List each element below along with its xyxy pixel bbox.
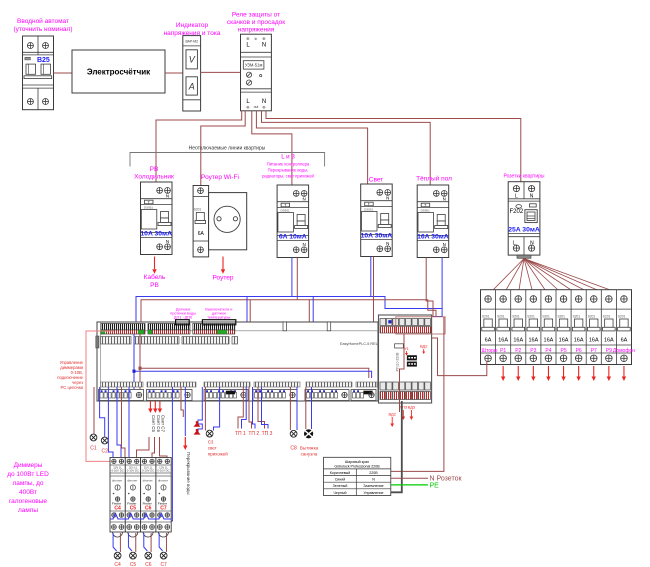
svg-text:10A 30мА: 10A 30мА (361, 233, 393, 240)
svg-text:T: T (284, 203, 286, 207)
wire jumper2 blue into PLC (312, 297, 314, 343)
svg-text:P9: P9 (606, 348, 612, 354)
svg-text:Роутер: Роутер (213, 275, 234, 282)
svg-text:Электросчётчик: Электросчётчик (87, 68, 151, 77)
svg-text:N Розеток: N Розеток (430, 476, 463, 483)
svg-text:C5: C5 (130, 506, 137, 512)
arrows PSU bottom outputs (390, 410, 413, 427)
svg-text:Черный: Черный (334, 491, 347, 495)
router breaker 6A with socket (193, 186, 247, 257)
svg-text:S201: S201 (558, 315, 566, 319)
PLC internal wire maroon (140, 334, 369, 378)
svg-text:Gidrolock Professional 220В: Gidrolock Professional 220В (334, 464, 380, 468)
svg-text:0-10V DC: 0-10V DC (157, 469, 169, 473)
wire floor-heating maroon to PSU (426, 258, 433, 318)
svg-text:S201: S201 (618, 315, 626, 319)
wire PE green (391, 483, 439, 490)
svg-text:6A: 6A (621, 338, 628, 344)
RCBO light 10A 30mA (361, 184, 393, 257)
wire light module down blue (370, 257, 372, 297)
wire L3 to PLC blue (291, 258, 293, 297)
svg-text:6A: 6A (485, 338, 492, 344)
svg-text:УЗМ-51м: УЗМ-51м (245, 63, 263, 68)
svg-text:Реле защиты от: Реле защиты от (232, 12, 280, 19)
labels PSU bottom outputs (388, 405, 415, 417)
svg-text:Неотключаемые линии квартиры: Неотключаемые линии квартиры (189, 146, 266, 152)
svg-text:dimmer: dimmer (112, 479, 122, 483)
wires dimmers to lamps (113, 533, 166, 552)
svg-text:⊕: ⊕ (246, 105, 250, 110)
arrow fridge cable (154, 257, 156, 270)
wire 220V brown to valve table (391, 317, 444, 471)
svg-text:ТП3: ТП3 (400, 405, 408, 410)
PLC internal wire blue (134, 334, 372, 378)
electricity meter (72, 50, 165, 93)
svg-text:N: N (386, 241, 389, 246)
wire shutters breaker to PSU (432, 338, 487, 376)
PLC top terminal strip group 1 (101, 324, 145, 335)
svg-text:T: T (148, 200, 150, 204)
svg-text:ВД2: ВД2 (388, 412, 396, 417)
wire floor-heating blue to bus (441, 258, 443, 309)
wire internal maroon drop (139, 368, 141, 400)
svg-text:ВД2: ВД2 (420, 344, 428, 349)
surge protection relay UZM-51m (241, 34, 272, 111)
wire to lamp C1 (93, 387, 95, 434)
svg-text:C6: C6 (145, 562, 152, 567)
svg-text:Перекрывание воды: Перекрывание воды (186, 452, 191, 495)
svg-text:Свет C5: Свет C5 (151, 415, 156, 433)
svg-text:B25: B25 (37, 57, 50, 64)
svg-text:напряжения: напряжения (238, 27, 275, 34)
dimmer module C7 (156, 458, 171, 538)
svg-text:P5: P5 (560, 348, 566, 354)
svg-text:лампы, до: лампы, до (12, 480, 43, 487)
arrow water shutoff (184, 437, 186, 446)
label L3 line (262, 154, 314, 179)
svg-text:220В: 220В (369, 471, 378, 475)
PLC top terminal strip group 2 (leak sensors) (148, 324, 190, 335)
svg-text:C8: C8 (290, 446, 297, 452)
wire relay to light module (256, 111, 367, 184)
wire N sockets (391, 476, 463, 483)
svg-text:N: N (372, 478, 375, 482)
svg-text:температуры: температуры (207, 316, 230, 320)
wire to lamp C3 blue (214, 387, 220, 431)
PLC second terminal row (101, 337, 238, 345)
label switches and temp sensors (205, 308, 232, 320)
control wire black thick (391, 401, 402, 492)
blue daisy chain dimmer bottoms (110, 514, 171, 520)
PLC top terminal strip group 3 (switches) (193, 324, 235, 335)
label input breaker (13, 17, 72, 33)
label fridge module (134, 166, 174, 181)
svg-text:0-10V DC: 0-10V DC (142, 469, 154, 473)
bracket non-switchable lines (130, 146, 325, 167)
svg-text:T: T (424, 203, 426, 207)
svg-text:ТП 2: ТП 2 (248, 431, 259, 437)
svg-text:Кабель: Кабель (144, 273, 166, 281)
RCBO floor heating 16A 30mA (417, 185, 449, 258)
svg-text:S201: S201 (512, 315, 520, 319)
svg-text:радиаторы, свет прихожей: радиаторы, свет прихожей (262, 174, 314, 179)
svg-text:Управление: Управление (364, 491, 384, 495)
svg-text:C2: C2 (101, 449, 108, 455)
svg-text:N: N (302, 242, 305, 247)
wire maroon inside PSU (400, 334, 405, 412)
svg-text:РС цепочки: РС цепочки (61, 385, 84, 390)
svg-text:Свет C7: Свет C7 (161, 415, 166, 433)
labels light C5 C6 C7 vertical (151, 415, 166, 433)
wire to lamp C8 blue (296, 387, 298, 430)
svg-text:DS951: DS951 (281, 209, 291, 213)
svg-text:16A: 16A (559, 338, 569, 344)
circuit breaker QF1 B25 (input) (23, 36, 54, 110)
svg-text:S201: S201 (527, 315, 535, 319)
svg-text:Диммеры: Диммеры (14, 462, 43, 469)
svg-text:⊕: ⊕ (262, 105, 266, 110)
svg-text:S201: S201 (573, 315, 581, 319)
junction dots internal (133, 367, 142, 373)
svg-text:C6: C6 (145, 506, 152, 512)
svg-text:6A 10мА: 6A 10мА (279, 234, 307, 241)
svg-text:ТП 3: ТП 3 (262, 431, 273, 437)
svg-text:санузла: санузла (301, 452, 318, 457)
PLC power supply module (379, 315, 446, 403)
labels TP1 TP2 TP3 (235, 431, 273, 437)
svg-text:V: V (189, 55, 196, 65)
svg-text:DS951: DS951 (421, 209, 431, 213)
svg-text:Шторы: Шторы (482, 348, 498, 354)
svg-text:C5: C5 (130, 562, 137, 567)
svg-text:16A: 16A (574, 338, 584, 344)
svg-text:10A 30мА: 10A 30мА (140, 231, 172, 238)
svg-text:400Вт: 400Вт (19, 489, 37, 496)
wire dimmer control pink (86, 331, 171, 461)
svg-text:⊕: ⊕ (246, 36, 250, 41)
svg-text:DS951: DS951 (364, 208, 374, 212)
svg-text:ДП1 - ДП6: ДП1 - ДП6 (174, 316, 192, 320)
RCBO fridge 10A 30mA (140, 182, 172, 255)
wire light module down maroon (373, 257, 375, 326)
svg-text:16A: 16A (604, 338, 614, 344)
svg-text:Шаровый кран: Шаровый кран (345, 460, 369, 464)
svg-text:лампы: лампы (18, 507, 38, 514)
svg-text:свет: свет (208, 446, 217, 451)
valve legend table (324, 457, 391, 495)
svg-text:галогеновые: галогеновые (9, 498, 47, 505)
wire L3 to PLC maroon (296, 258, 298, 300)
lamp C1 (90, 434, 97, 451)
wire bus blue N (136, 297, 442, 323)
V/A indicator module (183, 36, 201, 111)
wires light outputs to dimmers (137, 437, 168, 458)
svg-text:16A 30мА: 16A 30мА (417, 234, 449, 241)
svg-text:Свет: Свет (369, 177, 383, 184)
svg-text:S201: S201 (542, 315, 550, 319)
arrows socket circuits (501, 366, 626, 381)
dimmer module C4 (110, 458, 125, 538)
svg-text:Свет C6: Свет C6 (156, 415, 161, 433)
svg-text:P2: P2 (515, 348, 521, 354)
label surge relay (227, 12, 285, 34)
svg-text:C4: C4 (114, 506, 121, 512)
svg-text:C4: C4 (114, 562, 121, 567)
wire blue to dimmer bottom (167, 387, 172, 521)
exhaust fan symbol (300, 429, 319, 456)
label VD2 output (420, 344, 428, 355)
svg-text:(уточнить номинал): (уточнить номинал) (13, 26, 72, 33)
svg-text:РВ: РВ (150, 282, 159, 289)
svg-text:16A: 16A (528, 338, 538, 344)
label cable RV (144, 273, 166, 289)
svg-text:ВД3: ВД3 (408, 405, 416, 410)
connector box leak sensors (176, 320, 190, 325)
svg-text:out: out (254, 105, 259, 109)
svg-text:N: N (302, 196, 305, 201)
svg-text:Питание контроллера: Питание контроллера (267, 162, 310, 167)
svg-text:прихожей: прихожей (208, 451, 229, 457)
svg-text:Вытяжка: Вытяжка (300, 446, 319, 451)
svg-text:N: N (386, 195, 389, 200)
svg-text:6A: 6A (198, 231, 205, 237)
svg-text:DS951: DS951 (144, 206, 154, 210)
wire relay to router module (201, 111, 245, 186)
wire relay to fridge module (156, 111, 242, 182)
svg-text:S201: S201 (603, 315, 611, 319)
wire to lamp C8 maroon (289, 387, 291, 430)
svg-text:16A: 16A (544, 338, 554, 344)
svg-text:P6: P6 (576, 348, 582, 354)
wire relay to sockets RCD (266, 111, 521, 182)
svg-text:Индикатор: Индикатор (176, 22, 209, 29)
wire to lamp C2 (100, 387, 105, 437)
svg-text:S201: S201 (497, 315, 505, 319)
svg-text:0-10V DC: 0-10V DC (127, 469, 139, 473)
wire jumper2 maroon into PLC (308, 300, 310, 342)
PLC controller EasyHomePLC-5 (96, 322, 383, 401)
svg-text:N: N (166, 193, 169, 198)
svg-text:F202: F202 (510, 209, 524, 215)
svg-text:Перекрывание воды,: Перекрывание воды, (268, 168, 309, 173)
fan of wires RCD to socket breakers (488, 259, 624, 296)
svg-text:dimmer: dimmer (127, 479, 137, 483)
svg-text:P3: P3 (530, 348, 536, 354)
wire to fan blue (311, 387, 313, 429)
wire bus maroon L (141, 300, 436, 322)
wire jumper maroon into PLC (249, 300, 251, 340)
PLC bottom connector groups (99, 390, 377, 401)
svg-text:P7: P7 (591, 348, 597, 354)
svg-text:C7: C7 (160, 562, 167, 567)
svg-text:скачков и просадок: скачков и просадок (227, 19, 285, 26)
dimmer module C6 (141, 458, 156, 538)
svg-text:S201: S201 (482, 315, 490, 319)
svg-text:ТП 1: ТП 1 (235, 431, 246, 437)
wires floor heating TP1-TP3 (238, 387, 268, 429)
svg-text:⊕: ⊕ (262, 36, 266, 41)
svg-text:Зеленый: Зеленый (333, 484, 348, 488)
svg-text:16A: 16A (498, 338, 508, 344)
svg-text:N: N (262, 43, 266, 49)
lamp C2 (101, 437, 108, 454)
wire to lamp C3 maroon (204, 387, 206, 431)
svg-text:N: N (443, 242, 446, 247)
svg-text:16A: 16A (513, 338, 523, 344)
svg-text:Розетки квартиры: Розетки квартиры (503, 174, 544, 180)
label dimmers (7, 462, 49, 514)
label dimmer control (57, 360, 83, 390)
svg-text:Роутер Wi-Fi: Роутер Wi-Fi (201, 174, 239, 181)
PLC bottom thin strip (101, 382, 378, 387)
lamp C3 (206, 430, 228, 456)
svg-text:P1: P1 (500, 348, 506, 354)
svg-text:C1: C1 (90, 446, 97, 452)
svg-text:T: T (368, 202, 370, 206)
svg-text:N: N (443, 196, 446, 201)
svg-text:L и 3: L и 3 (281, 154, 295, 161)
svg-text:S201: S201 (194, 208, 202, 212)
svg-text:A: A (188, 82, 195, 92)
svg-text:Домофон: Домофон (613, 348, 635, 354)
svg-text:Синий: Синий (335, 478, 346, 482)
svg-text:C3: C3 (208, 440, 214, 445)
svg-text:dimmer: dimmer (143, 479, 153, 483)
svg-text:Коричневый: Коричневый (330, 471, 350, 475)
svg-text:C7: C7 (160, 506, 167, 512)
wire to valves blue (198, 387, 202, 432)
lamps C4-C7 (114, 552, 167, 567)
svg-text:Холодильник: Холодильник (134, 174, 174, 181)
svg-text:У1: У1 (404, 346, 410, 351)
wire relay to L3 module (252, 111, 292, 185)
svg-text:S201: S201 (588, 315, 596, 319)
svg-text:dimmer: dimmer (158, 479, 168, 483)
svg-text:Тёплый пол: Тёплый пол (416, 175, 452, 183)
svg-text:0-10V DC: 0-10V DC (111, 469, 123, 473)
lamp C8 (290, 430, 297, 451)
svg-text:P4: P4 (545, 348, 551, 354)
wire breaker to meter (54, 72, 73, 74)
svg-text:РУ110-220В: РУ110-220В (396, 352, 400, 372)
junction blue terminal (388, 320, 391, 323)
wire jumper blue into PLC (246, 297, 248, 341)
svg-text:ВАР-М2: ВАР-М2 (185, 40, 198, 44)
svg-text:до 100Вт LED: до 100Вт LED (7, 471, 49, 478)
svg-text:Заземление: Заземление (363, 484, 383, 488)
label leak sensors (170, 308, 196, 320)
RCD F202 25A 30mA (508, 182, 540, 259)
wire meter to indicator (165, 72, 183, 74)
connector box switches (202, 320, 235, 325)
arrows light outputs C5-C7 (148, 401, 162, 413)
wire relay to floor-heating module (262, 111, 431, 185)
wires water shutoff pair (181, 387, 185, 436)
wires PLC to dimmer inputs (108, 387, 129, 458)
svg-text:РВ: РВ (150, 166, 159, 173)
svg-text:Вводной автомат: Вводной автомат (17, 17, 69, 25)
svg-text:EasyHomePLC-5 RELAY: EasyHomePLC-5 RELAY (340, 342, 383, 346)
svg-text:PE: PE (430, 483, 440, 490)
svg-text:in: in (255, 37, 258, 41)
arrow router (222, 257, 224, 270)
svg-text:N: N (166, 239, 169, 244)
label U1 output (404, 346, 410, 356)
dimmer module C5 (125, 458, 140, 538)
wire jumper3 maroon inside PLC (281, 340, 307, 350)
valve symbols (194, 421, 201, 434)
labels socket circuits (482, 348, 636, 354)
RCBO L3 6A 10mA (277, 185, 309, 258)
svg-text:16A: 16A (589, 338, 599, 344)
label indicator (164, 22, 221, 37)
socket breakers row S201 x10 (481, 290, 632, 365)
wire to fan maroon (305, 387, 307, 429)
svg-text:25A 30мА: 25A 30мА (508, 227, 540, 234)
wire internal blue drop (133, 371, 135, 400)
wire indicator to surge relay (201, 71, 241, 73)
